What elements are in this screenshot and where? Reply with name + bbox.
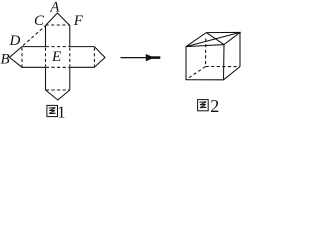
svg-text:2: 2 — [210, 96, 219, 116]
svg-text:C: C — [34, 13, 45, 29]
svg-text:1: 1 — [57, 102, 65, 118]
svg-text:B: B — [1, 51, 10, 67]
svg-text:D: D — [9, 33, 21, 49]
svg-text:E: E — [51, 49, 61, 65]
svg-text:F: F — [73, 13, 84, 29]
svg-text:A: A — [49, 0, 60, 15]
